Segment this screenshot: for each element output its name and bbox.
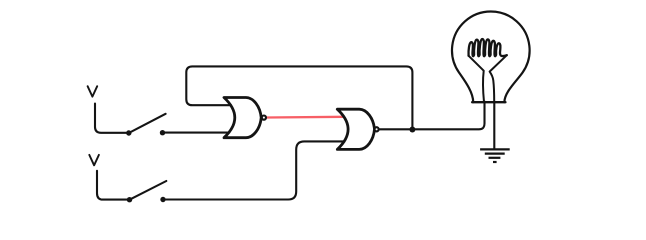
lamp DS1 glass envelope <box>452 11 530 102</box>
switch S1 contact dot right <box>160 130 165 135</box>
lamp DS1 filament coil <box>469 39 507 56</box>
wire NOR2 output to junction and to bulb <box>379 102 484 130</box>
wire feedback: junction up over top to NOR1 top input <box>186 66 412 129</box>
switch S2 lever <box>130 181 167 200</box>
wire S1 to NOR1 bottom input <box>163 132 230 134</box>
NOR gate U2 output bubble <box>375 127 379 131</box>
label V2 (bottom voltage source) <box>89 155 99 165</box>
lamp DS1 base line <box>472 101 505 103</box>
switch S1 contact dot left <box>126 130 131 135</box>
switch S2 contact dot right <box>160 197 165 202</box>
wire V1 to switch S1 <box>95 104 129 133</box>
lamp DS1 right filament support <box>490 55 507 102</box>
NOR gate U1 output bubble <box>262 116 266 120</box>
switch S1 lever <box>129 114 166 133</box>
ground symbol <box>480 149 510 162</box>
label V1 (top voltage source) <box>88 86 98 96</box>
wire lamp to ground <box>493 102 495 149</box>
wire V2 to switch S2 <box>97 171 130 200</box>
wire red: NOR1 output to NOR2 top input <box>267 116 344 119</box>
junction node <box>409 127 415 133</box>
lamp DS1 left filament support <box>468 56 484 102</box>
switch S2 contact dot left <box>127 197 132 202</box>
NOR gate U2 body <box>337 109 374 149</box>
wire S2 to NOR2 bottom input <box>163 141 345 199</box>
NOR gate U1 body <box>224 98 261 138</box>
